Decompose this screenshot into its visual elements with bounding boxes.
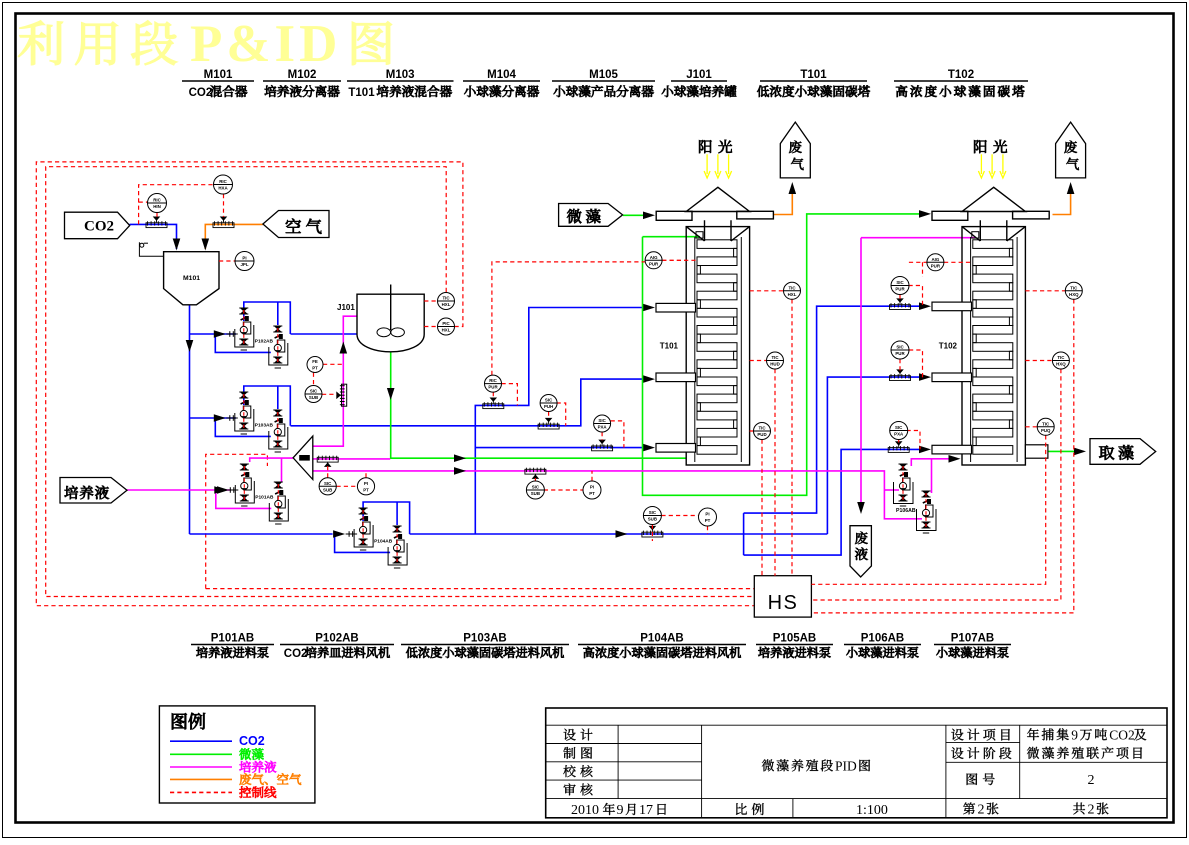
valve culture line [525,468,546,479]
instrument RIC CO2 valve [148,194,167,213]
flag 培养液 culture inlet [60,478,127,504]
valve CO2 inlet [146,217,167,228]
legend title 图例 [172,713,205,730]
svg-text:2: 2 [1088,802,1095,817]
control T102 top feed valve [900,286,923,307]
valve T101 top feed [483,398,504,409]
svg-text:T101: T101 [348,87,375,99]
legend entry 微藻 [170,748,264,760]
instrument TIC J101 [438,293,455,310]
valve CO2 header [642,526,663,537]
flag 废气 waste gas T101 [780,122,810,178]
equipment label M105 [552,69,655,97]
legend entry CO2 [170,734,265,748]
instrument PI eductor line [357,478,374,495]
svg-text:J101: J101 [686,69,712,81]
flag 微藻 microalgae inlet [559,204,623,227]
control T101 TIC top [750,291,792,576]
control line pump-area dashed branch [206,454,268,588]
drawing title 利用段P&ID图 [18,15,391,73]
svg-text:HXL: HXL [442,328,451,333]
instrument TIC T102 bottom [1037,418,1054,435]
control gas analyzer T101 into tower [662,259,697,261]
control T102 TIC bottom to HS [811,427,1045,585]
valve T101 bottom feed [592,440,613,451]
svg-text:CO2: CO2 [189,87,213,99]
svg-text:P103AB: P103AB [463,633,506,645]
svg-text:SIC: SIC [598,418,606,423]
svg-text:P&ID: P&ID [190,15,341,73]
tank J101 [357,285,424,352]
control T102 mid feed valve [900,350,923,377]
valve air inlet [213,217,234,228]
svg-text:SUB: SUB [531,491,540,496]
svg-text:HS: HS [768,592,799,614]
control line outer dashed loop [36,162,754,606]
svg-text:SUB: SUB [309,395,318,400]
inlet pipe T101 bottom [656,444,696,453]
svg-text:P106AB: P106AB [896,508,916,514]
instrument SIC eductor valve [319,478,336,495]
svg-text:P101AB: P101AB [211,633,254,645]
svg-text:TIC: TIC [442,296,450,301]
svg-text:9: 9 [1071,727,1078,742]
svg-text:PUR: PUR [488,385,498,390]
flag 废气 waste gas T102 [1056,122,1086,178]
svg-text:2010: 2010 [571,803,599,818]
legend box 图例 [159,706,315,803]
pump P106B [922,491,934,533]
svg-text:RIC: RIC [489,378,497,383]
svg-text:PXA: PXA [598,425,608,430]
svg-text:RIC: RIC [219,179,227,184]
instrument SIC CO2 header [643,507,661,525]
wire CO2 main from M101 down [189,305,191,534]
svg-text:PIC: PIC [442,321,450,326]
svg-text:TIC: TIC [771,355,779,360]
svg-text:HIN: HIN [153,204,161,209]
inlet pipe T101 top [656,303,696,312]
svg-text:P107AB: P107AB [951,633,994,645]
title block table [546,708,1167,818]
svg-text:SIC: SIC [649,510,657,515]
svg-text:PT: PT [589,491,595,496]
HS controller box [754,576,811,617]
control header valve pair [652,516,707,542]
instrument SIC culture line [526,481,544,499]
svg-text:PUR: PUR [895,287,905,292]
instrument PI M101 [235,252,254,271]
svg-text:P106AB: P106AB [861,633,904,645]
svg-text:SIC: SIC [896,345,904,350]
svg-text:SIC: SIC [310,389,318,394]
inlet pipe T102 mid [932,373,972,382]
wire waste gas T102 to flag [1053,194,1071,215]
svg-text:PUR: PUR [931,263,941,268]
wire culture long line east [313,471,922,519]
valve T102 mid feed [890,370,911,381]
instrument TIC T101 top [784,282,801,299]
equipment label P107AB [934,633,1011,658]
svg-text:P102AB: P102AB [255,339,274,345]
wire culture eductor mid port [313,458,390,460]
svg-text:SUB: SUB [323,487,332,492]
instrument SIC T102 top valve [891,277,909,295]
wire culture eductor to J101 riser [313,316,357,446]
svg-text:SUB: SUB [648,517,657,522]
wire CO2 from P103 to T101 middle inlet [291,379,646,426]
control T101 mid feed valve [549,403,566,426]
svg-text:HXL: HXL [788,292,797,297]
instrument RIC T101 top valve [485,375,502,392]
wire CO2 riser to T101 bottom and top inlets [475,308,645,535]
svg-text:2: 2 [1088,773,1095,788]
sun rays T102 [978,154,1006,178]
svg-text:SIC: SIC [532,485,540,490]
svg-text:TIC: TIC [1070,285,1078,290]
equipment label M103 [347,69,454,99]
control riser to T101 gas analyzer [492,260,686,375]
legend entry 培养液 [170,761,276,773]
inlet pipe T102 bottom [932,445,972,454]
svg-text:PUR: PUR [649,261,659,266]
control T101 bottom feed valve [602,421,624,448]
svg-text:1:100: 1:100 [856,803,888,818]
svg-text:P104AB: P104AB [640,633,683,645]
svg-text:RIC: RIC [153,198,161,203]
wire CO2 to T101 bottom inlet [475,447,645,449]
svg-text:TIC: TIC [1057,355,1065,360]
control M101 CO2 valve loop [139,185,224,225]
svg-text:PI: PI [364,481,368,486]
instrument FE/PT culture riser [307,357,323,373]
svg-text:HXA: HXA [218,186,228,191]
svg-text:HUD: HUD [770,362,780,367]
svg-text:HXQ: HXQ [1069,292,1079,297]
inlet pipe T102 top [932,302,972,311]
pump P106A [899,464,911,506]
inlet pipe T101 mid [656,373,696,382]
sun label 阳光 T102 [974,140,1007,153]
wire CO2 feed to M101 [130,224,177,249]
svg-text:AIG: AIG [931,257,939,262]
equipment label P105AB [756,633,833,658]
equipment label M101 [182,69,254,99]
control J101 pressure tap [424,326,437,328]
valve T101 mid feed [538,418,559,429]
svg-text:SIC: SIC [896,280,904,285]
sun label 阳光 T101 [699,140,732,153]
instrument TIC T102 top [1065,282,1082,299]
wire culture branch to pump P106 A [884,489,899,491]
instrument PI culture line [583,481,601,499]
control T102 TIC top to HS [811,291,1073,613]
legend entry 控制线 [170,786,276,798]
control FE/PT to riser valve [314,364,344,394]
control T102 bottom feed valve [899,431,920,450]
pump group P102AB blower [215,302,290,352]
flag 空气 air inlet [263,211,329,238]
equipment label T101 [757,69,870,97]
control T102 TIC mid to HS [811,361,1061,601]
svg-text:M101: M101 [204,69,233,81]
control T101 TIC mid [750,361,775,576]
svg-text:2: 2 [978,802,985,817]
svg-text:T101: T101 [660,342,679,351]
svg-text:PUQ: PUQ [1041,428,1051,433]
legend entry 废气、空气 [170,773,301,785]
eductor mixer [293,436,313,479]
equipment label P103AB [401,633,569,658]
equipment label M102 [263,69,341,97]
wire air feed to M101 [205,224,263,249]
instrument SIC culture riser [305,386,322,403]
flag CO2 inlet [65,212,130,239]
svg-text:PI: PI [242,256,246,261]
wire culture feed from flag to pump P101AB [127,489,231,491]
equipment label P106AB [844,633,921,658]
tower T101 [656,187,773,465]
control J101 temperature tap [424,300,437,302]
svg-text:TIC: TIC [758,426,766,431]
wire microalgae from J101 to towers [391,214,921,495]
svg-text:M103: M103 [386,69,415,81]
svg-text:PUD: PUD [757,432,766,437]
mixer M101 vent [139,242,163,256]
control line inner dashed loop [46,167,755,597]
valve T102 top feed [890,299,911,310]
instrument TIC T101 mid [767,352,784,369]
instrument RIC air valve [214,175,233,194]
svg-text:M105: M105 [589,69,618,81]
control line bottom run to HS [206,588,755,590]
equipment label P104AB [578,633,746,658]
svg-text:SIC: SIC [895,425,903,430]
svg-text:CO2: CO2 [239,734,265,748]
wire microalgae from flag to T101 [623,214,645,216]
control T101 top feed valve [493,384,517,406]
svg-text:SIC: SIC [545,398,553,403]
instrument PIC J101 [438,318,455,335]
wire culture pumps to eductor [250,458,293,482]
svg-text:CO2: CO2 [84,219,114,235]
svg-text:P105AB: P105AB [773,633,816,645]
svg-text:PID: PID [835,758,857,773]
svg-text:PT: PT [705,518,711,523]
pump group P104AB blower [335,502,410,552]
wire culture to T102 top and waste flag [861,238,975,502]
instrument PI CO2 header [699,508,717,526]
pump group P103AB blower [215,386,290,436]
pump group P101AB culture pumps [216,490,271,508]
svg-text:J101: J101 [337,303,355,312]
svg-text:PI: PI [590,485,594,490]
svg-text:P102AB: P102AB [315,633,358,645]
control P101 SIC bubble [328,466,366,486]
svg-text:P104AB: P104AB [374,539,393,545]
wire CO2 riser to T102 middle inlet [827,377,921,534]
svg-text:T102: T102 [948,69,974,81]
svg-text:M104: M104 [487,69,516,81]
equipment label M104 [463,69,540,97]
svg-text:M102: M102 [288,69,317,81]
svg-text:FE: FE [312,359,318,364]
svg-text:P101AB: P101AB [255,495,274,501]
wire CO2 T102 distribution [744,306,921,555]
control T101 TIC bottom [750,431,762,576]
instrument SIC T102 bottom valve [890,422,908,440]
instrument TIC T102 mid [1052,352,1069,369]
svg-text:17: 17 [639,803,653,818]
valve eductor outlet [317,456,338,467]
control gas analyzer T102 into tower [944,261,973,263]
instrument TIC T101 bottom [754,423,771,440]
sun rays T101 [704,154,732,178]
flag 取藻 harvest outlet [1090,439,1156,465]
svg-text:PT: PT [363,487,369,492]
instrument SIC T102 mid valve [891,341,909,359]
control T102 gas analyzer [909,262,927,277]
svg-text:PT: PT [312,366,318,371]
svg-text:SIC: SIC [324,481,332,486]
svg-text:HXQ: HXQ [1056,362,1066,367]
svg-text:TIC: TIC [1042,421,1050,426]
instrument SIC T101 mid valve [540,395,557,412]
wire CO2 to T102 bottom inlet [744,449,921,555]
equipment label P102AB [280,633,394,661]
title block texts [563,727,1146,818]
instrument AIG T102 [927,254,944,271]
wire culture pumps to T102 bottom inlet [911,459,950,493]
equipment label J101 [662,69,737,97]
svg-text:T102: T102 [939,342,958,351]
svg-text:CO2: CO2 [284,648,308,660]
wire waste gas T101 to flag [773,194,792,215]
equipment label T102 [894,69,1028,97]
svg-text:T101: T101 [800,69,827,81]
mixer M101 [164,252,219,305]
control M101 pressure tap [219,260,235,262]
svg-text:JPL: JPL [240,262,248,267]
tower T102 outlet pipe [1025,445,1048,458]
svg-text:P103AB: P103AB [255,423,274,429]
svg-text:PUH: PUH [544,404,553,409]
instrument SIC T101 bottom valve [594,415,611,432]
wire CO2 branch to blower P103 [190,417,237,419]
svg-text:TIC: TIC [788,285,796,290]
svg-text:PI: PI [705,512,709,517]
svg-text:9: 9 [617,803,624,818]
wire CO2 branch to blower P102 and J101 [190,333,358,335]
control culture valve pair [535,471,592,490]
svg-text:AIG: AIG [650,255,658,260]
svg-text:M101: M101 [183,275,200,282]
svg-text:PUR: PUR [895,351,905,356]
wire CO2 main header east [190,533,828,535]
instrument AIG T101 [645,252,662,269]
svg-text:CO2: CO2 [1109,727,1135,742]
valve T102 bottom feed [888,442,909,453]
tower T102 [932,187,1049,465]
valve J101 culture riser [337,384,347,406]
flag 废液 waste liquid [850,526,871,577]
equipment label P101AB [191,633,274,658]
wire microalgae T102 outlet to harvest flag [1048,450,1076,452]
svg-text:PXA: PXA [894,432,904,437]
svg-text:HXL: HXL [442,302,451,307]
